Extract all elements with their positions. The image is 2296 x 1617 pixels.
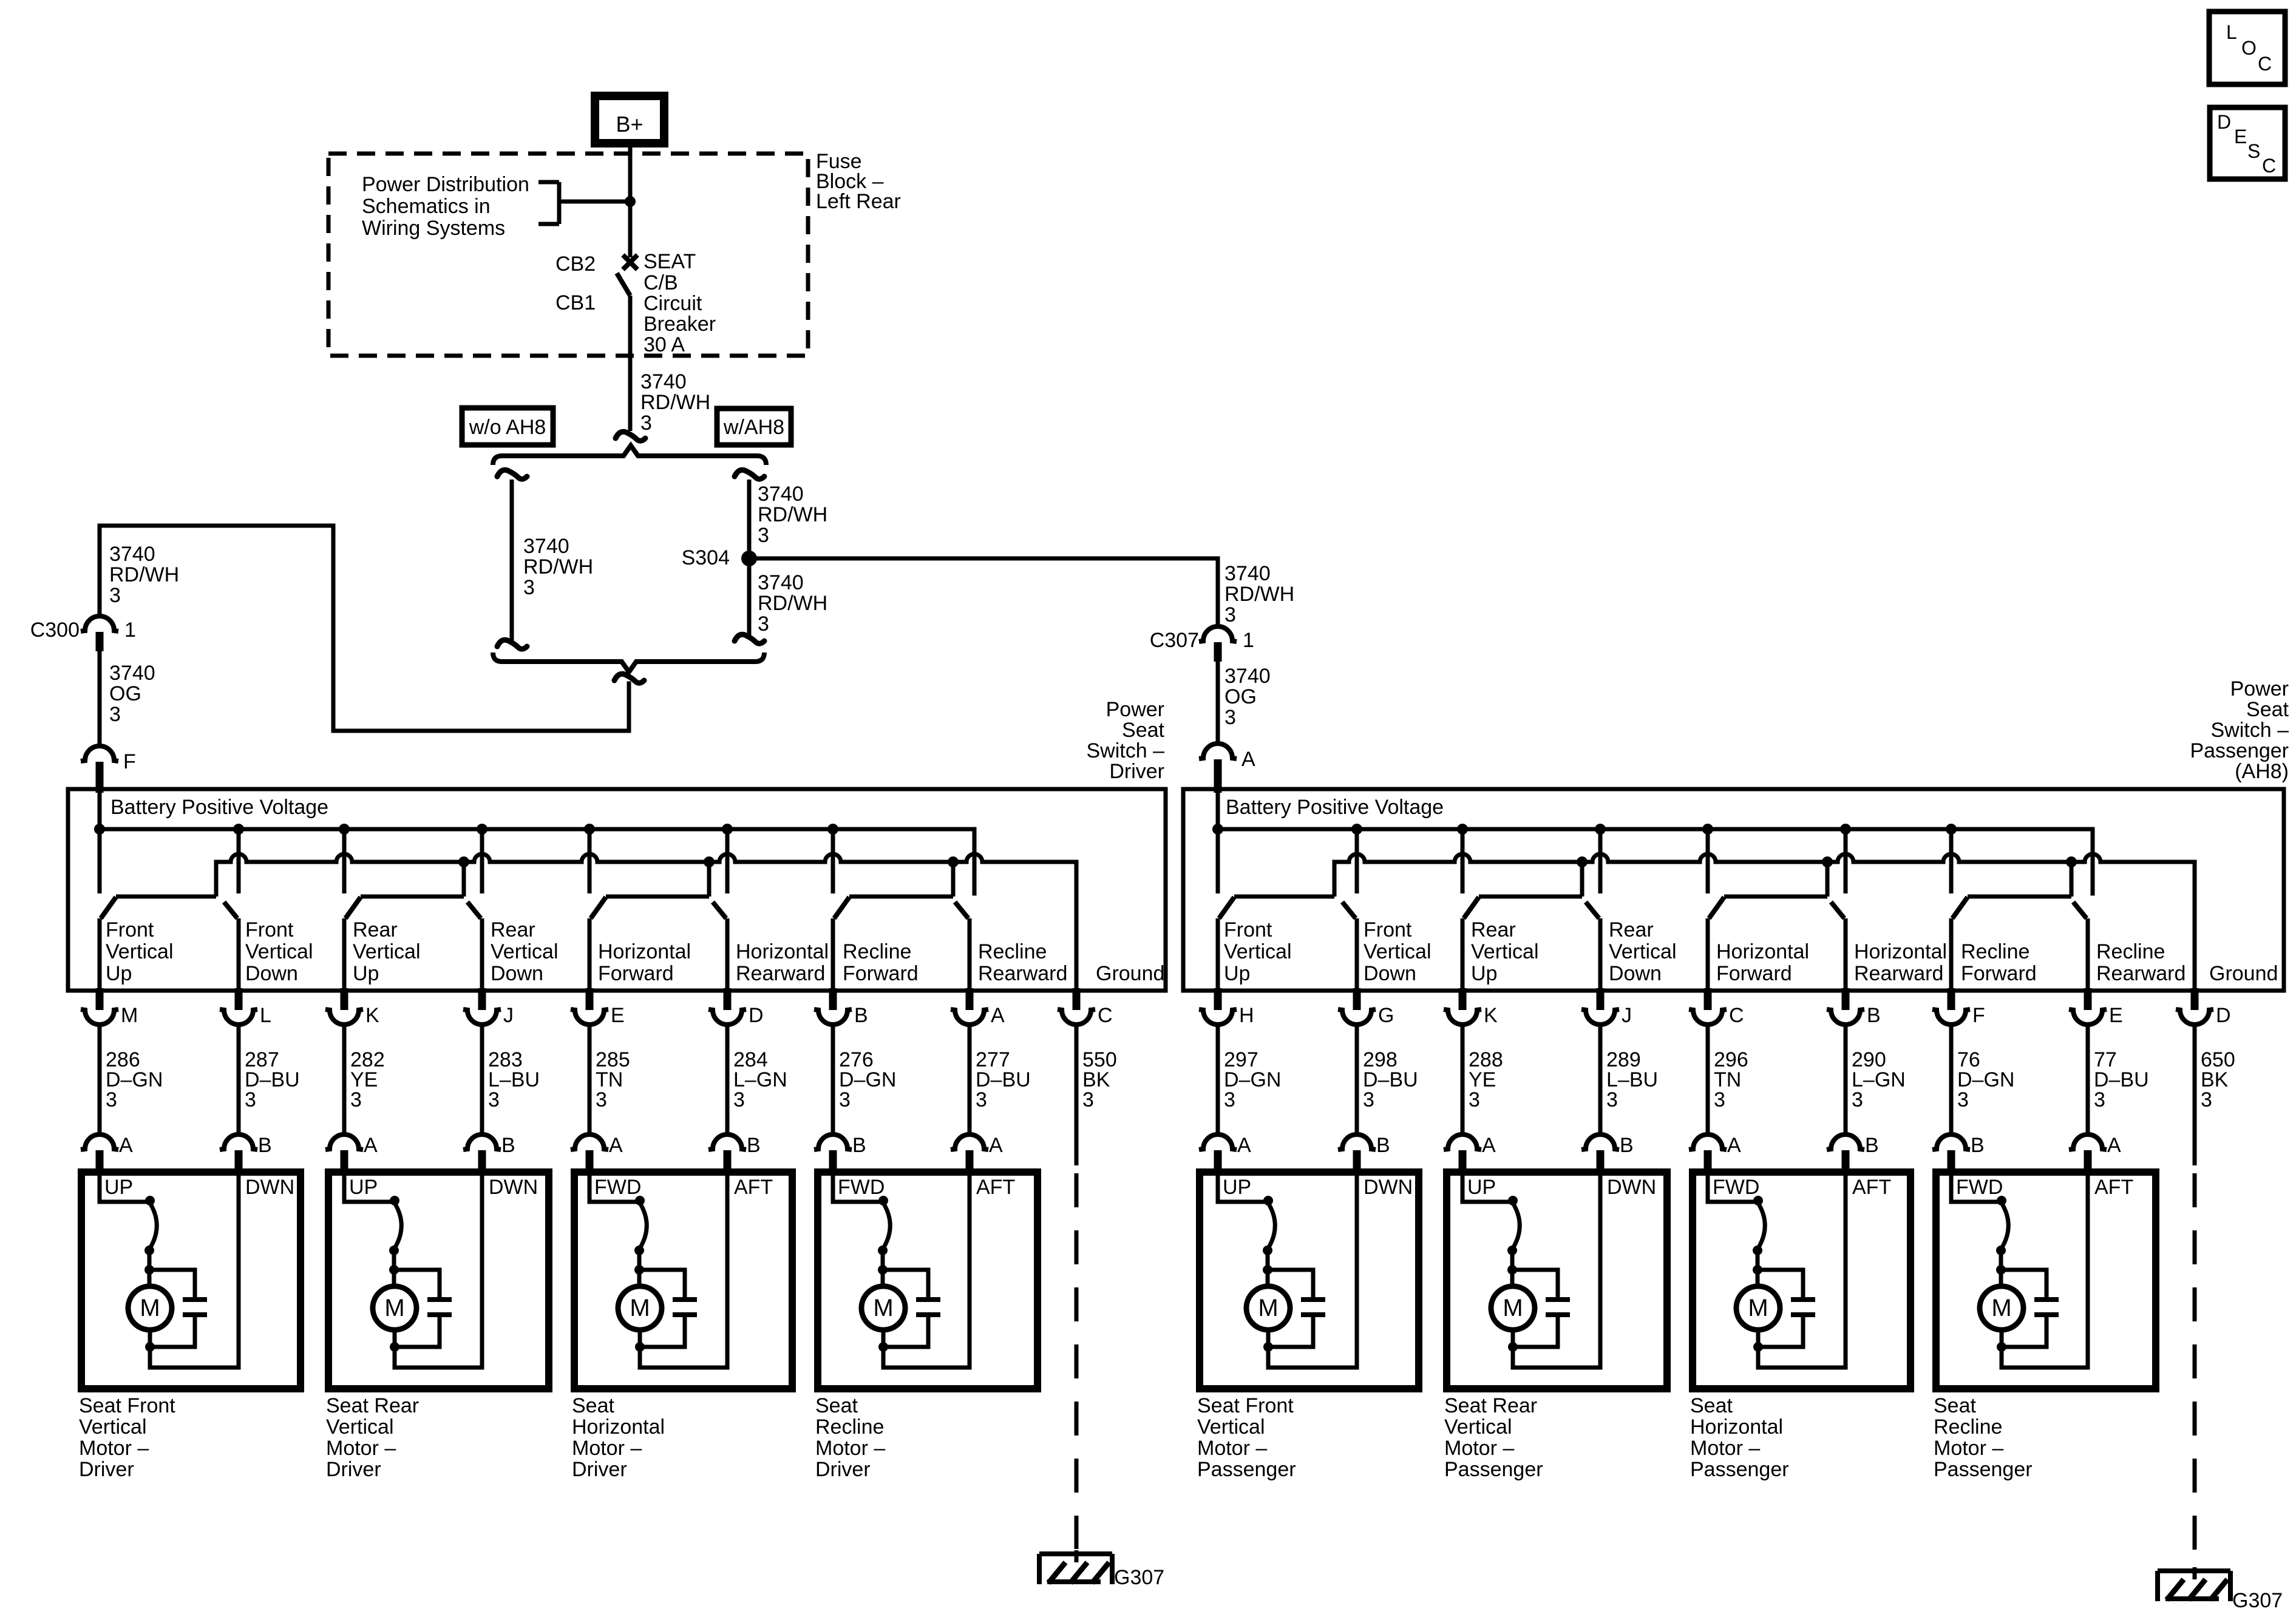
svg-text:Recline: Recline (2096, 940, 2165, 963)
junction (2066, 856, 2077, 867)
svg-text:3: 3 (109, 584, 121, 607)
power seat switch box (68, 789, 1166, 991)
svg-text:Forward: Forward (1961, 962, 2037, 985)
wire B+ drop (480, 829, 484, 893)
wire output switch Horizontal Forward (1706, 918, 1710, 991)
connector pin M (96, 988, 104, 1010)
svg-text:Horizontal: Horizontal (572, 1415, 665, 1439)
svg-text:M: M (873, 1295, 893, 1321)
svg-text:Vertical: Vertical (1444, 1415, 1512, 1439)
svg-text:RD/WH: RD/WH (758, 503, 827, 526)
svg-text:AFT: AFT (976, 1176, 1015, 1199)
svg-text:K: K (365, 1004, 379, 1027)
wire ground feed (707, 862, 712, 897)
svg-text:D: D (749, 1004, 764, 1027)
wire w/AH8 branch upper (747, 480, 752, 558)
wire (1216, 1025, 1220, 1134)
wire (1999, 1249, 2003, 1270)
svg-text:UP: UP (349, 1176, 378, 1199)
junction (1457, 824, 1468, 835)
wire ground feed (951, 862, 956, 897)
svg-text:3: 3 (1606, 1088, 1618, 1111)
option box w/AH8 (717, 408, 791, 445)
svg-text:Vertical: Vertical (326, 1415, 394, 1439)
wire B+ drop (1598, 829, 1603, 893)
svg-text:Seat Rear: Seat Rear (1444, 1394, 1537, 1417)
wire breaker output (628, 296, 633, 431)
svg-text:M: M (1503, 1295, 1523, 1321)
svg-text:L: L (260, 1004, 271, 1027)
svg-text:FWD: FWD (594, 1176, 641, 1199)
svg-text:Rear: Rear (491, 918, 535, 941)
wire break (497, 470, 527, 479)
wire 3740 OG 3 (98, 651, 102, 746)
junction (1997, 1342, 2006, 1352)
svg-text:G307: G307 (2232, 1589, 2283, 1612)
switch Rear Vertical Up contact bar (361, 895, 464, 899)
switch Recline Rearward blade (955, 902, 968, 918)
svg-text:1: 1 (124, 619, 136, 642)
svg-text:RD/WH: RD/WH (109, 563, 179, 586)
switch Front Vertical Up blade (1219, 897, 1234, 918)
wire capacitor top lead (2001, 1270, 2046, 1297)
wire (1355, 1025, 1359, 1134)
svg-text:M: M (1258, 1295, 1278, 1321)
svg-text:A: A (1727, 1134, 1741, 1157)
wire output switch Recline Rearward (2086, 918, 2090, 991)
svg-text:Vertical: Vertical (245, 940, 313, 963)
junction (145, 1196, 155, 1205)
svg-text:M: M (121, 1004, 138, 1027)
svg-text:C300: C300 (30, 619, 80, 642)
wire motor return (1513, 1176, 1600, 1368)
svg-text:M: M (1748, 1295, 1768, 1321)
wire (881, 1249, 885, 1270)
switch Rear Vertical Up blade (345, 897, 361, 918)
svg-text:3: 3 (758, 524, 769, 547)
svg-text:A: A (1241, 748, 1255, 771)
switch Recline Rearward blade (2073, 902, 2087, 918)
wire ground bus (to Ground pin) (1334, 854, 2195, 991)
wire output switch Horizontal Forward (588, 918, 592, 991)
wire from B+ to circuit breaker (628, 143, 633, 257)
svg-text:Vertical: Vertical (1224, 940, 1292, 963)
svg-text:3: 3 (1224, 1088, 1235, 1111)
connector motor pin B (1932, 1134, 1970, 1150)
connector motor pin B (1581, 1134, 1619, 1150)
junction (144, 1246, 154, 1255)
switch Rear Vertical Down blade (1586, 902, 1599, 918)
wire (392, 1270, 396, 1286)
svg-text:3: 3 (2094, 1088, 2105, 1111)
svg-text:A: A (609, 1134, 623, 1157)
wire B+ drop (725, 829, 730, 893)
junction (1263, 1196, 1273, 1205)
svg-text:Motor –: Motor – (1690, 1437, 1760, 1460)
junction (477, 824, 487, 835)
wire (831, 1025, 835, 1134)
wire B+ drop (342, 829, 347, 893)
wire break (497, 640, 527, 649)
svg-text:DWN: DWN (489, 1176, 538, 1199)
wire B+ drop (1461, 829, 1465, 893)
svg-text:Seat Front: Seat Front (1197, 1394, 1294, 1417)
svg-text:A: A (1237, 1134, 1251, 1157)
wire capacitor top lead (1268, 1270, 1313, 1297)
connector motor pin B (1827, 1134, 1864, 1150)
svg-text:Ground: Ground (2209, 962, 2278, 985)
junction (1753, 1246, 1762, 1255)
wire flexible link (883, 1203, 890, 1249)
junction (1753, 1265, 1762, 1275)
junction (1351, 824, 1362, 835)
wire (1266, 1270, 1270, 1286)
junction (389, 1246, 399, 1255)
svg-text:D: D (2216, 1004, 2231, 1027)
svg-text:E: E (2109, 1004, 2123, 1027)
wire ground lead (dashed) (1075, 1173, 1079, 1549)
junction (390, 1342, 399, 1352)
junction (1753, 1196, 1763, 1205)
brace top (493, 446, 766, 465)
power seat switch box (1183, 789, 2284, 991)
svg-text:Passenger: Passenger (1197, 1458, 1296, 1481)
motor M (618, 1286, 662, 1330)
svg-text:SEAT: SEAT (644, 250, 696, 273)
junction (635, 1342, 645, 1352)
svg-text:B: B (747, 1134, 761, 1157)
motor box (574, 1172, 792, 1389)
svg-text:Rear: Rear (1609, 918, 1654, 941)
svg-text:3: 3 (1852, 1088, 1863, 1111)
svg-text:A: A (119, 1134, 133, 1157)
wire 3740 OG 3 (1216, 662, 1220, 744)
junction (1702, 824, 1713, 835)
svg-text:DWN: DWN (1607, 1176, 1656, 1199)
svg-text:Seat: Seat (1690, 1394, 1733, 1417)
motor box (818, 1172, 1038, 1389)
svg-text:B: B (1376, 1134, 1390, 1157)
svg-text:Forward: Forward (598, 962, 674, 985)
svg-text:3: 3 (1957, 1088, 1969, 1111)
svg-text:CB1: CB1 (555, 291, 596, 314)
capacitor (427, 1297, 452, 1302)
svg-text:Up: Up (353, 962, 379, 985)
connector motor pin A (571, 1134, 608, 1150)
connector motor pin A (1444, 1134, 1481, 1150)
wire motor return (2002, 1176, 2088, 1368)
svg-text:Front: Front (106, 918, 154, 941)
svg-text:3: 3 (2201, 1088, 2212, 1111)
svg-text:Wiring Systems: Wiring Systems (362, 217, 505, 240)
svg-text:Vertical: Vertical (1197, 1415, 1265, 1439)
junction (827, 824, 838, 835)
switch Front Vertical Up contact bar (1234, 895, 1334, 899)
circuit breaker blade (617, 273, 630, 296)
svg-text:A: A (2107, 1134, 2121, 1157)
wire motor return (1268, 1176, 1357, 1368)
svg-text:Switch –: Switch – (1087, 739, 1165, 762)
wire motor feed (589, 1176, 640, 1202)
svg-text:RD/WH: RD/WH (1224, 583, 1294, 606)
junction (878, 1342, 888, 1352)
wire capacitor bottom lead (395, 1317, 440, 1347)
svg-text:Recline: Recline (1961, 940, 2029, 963)
connector pin J (478, 988, 486, 1010)
wire break (614, 674, 644, 683)
wire motor feed (100, 1176, 150, 1202)
svg-text:Driver: Driver (815, 1458, 871, 1481)
junction (1507, 1265, 1517, 1275)
wire (1598, 1025, 1603, 1134)
connector motor pin B (220, 1134, 257, 1150)
svg-text:E: E (2234, 126, 2247, 147)
wire ground lead (dashed) (2193, 1173, 2197, 1566)
wire (480, 1025, 484, 1134)
svg-text:Down: Down (245, 962, 298, 985)
svg-text:Horizontal: Horizontal (1854, 940, 1947, 963)
connector pin B (1842, 988, 1850, 1010)
wire (148, 1249, 152, 1270)
wire (588, 1025, 592, 1134)
svg-text:Vertical: Vertical (353, 940, 421, 963)
svg-text:J: J (1622, 1004, 1632, 1027)
svg-text:L: L (2226, 21, 2237, 43)
wire capacitor bottom lead (150, 1317, 195, 1347)
wire motor feed (344, 1176, 395, 1202)
svg-text:UP: UP (1223, 1176, 1251, 1199)
motor M (861, 1286, 905, 1330)
LOC legend box (2209, 12, 2285, 84)
svg-text:Circuit: Circuit (644, 292, 702, 315)
svg-text:Up: Up (1471, 962, 1497, 985)
junction (722, 824, 733, 835)
svg-text:Passenger: Passenger (2190, 739, 2289, 762)
motor M (373, 1286, 416, 1330)
junction (878, 1265, 888, 1275)
svg-text:AFT: AFT (1852, 1176, 1891, 1199)
junction (948, 856, 959, 867)
switch Horizontal Rearward blade (713, 902, 726, 918)
svg-text:C: C (2258, 53, 2272, 75)
wire capacitor top lead (883, 1270, 928, 1297)
wire capacitor bottom lead (883, 1317, 928, 1347)
svg-text:3: 3 (839, 1088, 851, 1111)
motor box (328, 1172, 549, 1389)
connector pin D (2191, 988, 2199, 1010)
svg-text:A: A (989, 1134, 1003, 1157)
svg-text:Vertical: Vertical (79, 1415, 147, 1439)
junction (634, 1265, 644, 1275)
switch Horizontal Forward blade (1709, 897, 1724, 918)
junction (1840, 824, 1851, 835)
connector pin F (1948, 988, 1955, 1010)
splice S304 (741, 551, 757, 566)
wire capacitor top lead (1758, 1270, 1803, 1297)
wire output switch Rear Vertical Down (1598, 918, 1603, 991)
junction (1263, 1246, 1272, 1255)
wire flexible link (1758, 1203, 1765, 1249)
connector pin A (966, 988, 974, 1010)
junction (1996, 1265, 2006, 1275)
svg-text:3740: 3740 (109, 662, 155, 685)
wire (881, 1270, 885, 1286)
connector pin K (1459, 988, 1467, 1010)
switch Recline Forward contact bar (1968, 895, 2071, 899)
svg-text:Rearward: Rearward (1854, 962, 1943, 985)
svg-text:Passenger: Passenger (1934, 1458, 2033, 1481)
svg-text:Driver: Driver (79, 1458, 134, 1481)
svg-text:S304: S304 (682, 546, 730, 569)
svg-text:3: 3 (1224, 603, 1236, 626)
svg-text:Vertical: Vertical (1364, 940, 1432, 963)
junction (458, 856, 469, 867)
wire flexible link (394, 1203, 401, 1249)
svg-text:Motor –: Motor – (815, 1437, 885, 1460)
svg-text:Horizontal: Horizontal (736, 940, 829, 963)
wire (98, 1025, 102, 1134)
wire (725, 1025, 730, 1134)
svg-text:Left Rear: Left Rear (816, 190, 901, 213)
wire motor return (1758, 1176, 1846, 1368)
svg-text:3: 3 (758, 612, 769, 636)
battery positive voltage symbol B+ (595, 96, 664, 143)
junction (878, 1246, 888, 1255)
svg-text:B: B (258, 1134, 272, 1157)
wire capacitor bottom lead (2002, 1317, 2046, 1347)
svg-text:Recline: Recline (1934, 1415, 2002, 1439)
junction (704, 856, 715, 867)
svg-text:AFT: AFT (734, 1176, 773, 1199)
wire flexible link (149, 1203, 157, 1249)
svg-text:C307: C307 (1150, 629, 1199, 652)
wire (1461, 1025, 1465, 1134)
wire w/AH8 branch lower (747, 558, 752, 636)
wire output switch Horizontal Rearward (1844, 918, 1848, 991)
motor M (1246, 1286, 1290, 1330)
wire motor return (150, 1176, 239, 1368)
junction (878, 1196, 888, 1205)
wire (637, 1249, 642, 1270)
svg-text:UP: UP (1467, 1176, 1496, 1199)
svg-text:Seat Rear: Seat Rear (326, 1394, 419, 1417)
svg-text:3: 3 (1714, 1088, 1725, 1111)
junction (584, 824, 595, 835)
wire B+ bus (1218, 829, 2093, 893)
connector motor pin B (814, 1134, 852, 1150)
wire (637, 1270, 642, 1286)
connector motor pin A (1199, 1134, 1237, 1150)
svg-text:30 A: 30 A (644, 333, 685, 356)
junction (339, 824, 350, 835)
svg-text:A: A (364, 1134, 378, 1157)
svg-text:Vertical: Vertical (1471, 940, 1539, 963)
svg-text:Recline: Recline (815, 1415, 884, 1439)
junction (233, 824, 244, 835)
svg-text:CB2: CB2 (555, 253, 596, 276)
connector pin E (2084, 988, 2092, 1010)
DESC legend box (2210, 107, 2285, 179)
connector pin E (586, 988, 594, 1010)
svg-text:Schematics in: Schematics in (362, 195, 491, 218)
svg-text:AFT: AFT (2094, 1176, 2133, 1199)
svg-text:Rearward: Rearward (978, 962, 1067, 985)
svg-text:C: C (1098, 1004, 1113, 1027)
wire break (616, 432, 645, 441)
capacitor (673, 1297, 697, 1302)
svg-text:3: 3 (596, 1088, 607, 1111)
junction (625, 196, 636, 207)
wire motor return (395, 1176, 482, 1368)
svg-text:Seat Front: Seat Front (79, 1394, 175, 1417)
svg-text:3: 3 (640, 412, 652, 435)
svg-text:Seat: Seat (815, 1394, 858, 1417)
svg-text:3740: 3740 (109, 543, 155, 566)
switch Front Vertical Up blade (101, 897, 116, 918)
switch Recline Forward blade (1952, 897, 1968, 918)
svg-text:M: M (384, 1295, 404, 1321)
motor box (1936, 1172, 2156, 1389)
connector motor pin B (708, 1134, 746, 1150)
motor M (1736, 1286, 1780, 1330)
wire output switch Rear Vertical Up (1461, 918, 1465, 991)
wire capacitor top lead (394, 1270, 440, 1297)
svg-text:3: 3 (1082, 1088, 1094, 1111)
wire (1756, 1270, 1760, 1286)
wire (1266, 1249, 1270, 1270)
svg-text:3740: 3740 (1224, 562, 1271, 585)
svg-text:Battery Positive Voltage: Battery Positive Voltage (1226, 796, 1444, 819)
svg-text:Down: Down (1364, 962, 1416, 985)
svg-text:Switch –: Switch – (2211, 719, 2289, 742)
junction (1263, 1342, 1273, 1352)
wire (1510, 1249, 1515, 1270)
wire capacitor bottom lead (1268, 1317, 1313, 1347)
wire motor feed (833, 1176, 883, 1202)
svg-text:Motor –: Motor – (79, 1437, 149, 1460)
wire B+ drop (588, 829, 592, 893)
connector pin A of passenger switch (1199, 744, 1237, 759)
motor box (81, 1172, 301, 1389)
ground G307 (1039, 1551, 1112, 1556)
wire ground bus (to Ground pin) (216, 854, 1076, 991)
option box w/o AH8 (462, 408, 553, 445)
ground G307 (2158, 1568, 2230, 1573)
switch Front Vertical Down blade (224, 902, 237, 918)
svg-text:S: S (2247, 140, 2260, 162)
svg-text:w/AH8: w/AH8 (723, 416, 784, 439)
wire w/o AH8 branch (510, 480, 514, 642)
wire ground lead (2193, 1025, 2197, 1165)
svg-text:E: E (611, 1004, 625, 1027)
svg-text:Driver: Driver (1109, 760, 1164, 783)
wire B+ drop (1706, 829, 1710, 893)
junction (1822, 856, 1833, 867)
wire (1844, 1025, 1848, 1134)
junction (390, 1196, 399, 1205)
svg-text:Ground: Ground (1096, 962, 1164, 985)
switch Recline Forward blade (834, 897, 849, 918)
junction (1212, 824, 1223, 835)
svg-text:Motor –: Motor – (572, 1437, 642, 1460)
svg-text:RD/WH: RD/WH (523, 555, 593, 578)
wire ground feed (462, 862, 466, 897)
svg-text:B: B (854, 1004, 868, 1027)
wire to driver switch (100, 526, 629, 731)
switch Front Vertical Down blade (1342, 902, 1356, 918)
connector C300 pin 1 (81, 616, 118, 631)
power distribution bracket (538, 180, 559, 185)
